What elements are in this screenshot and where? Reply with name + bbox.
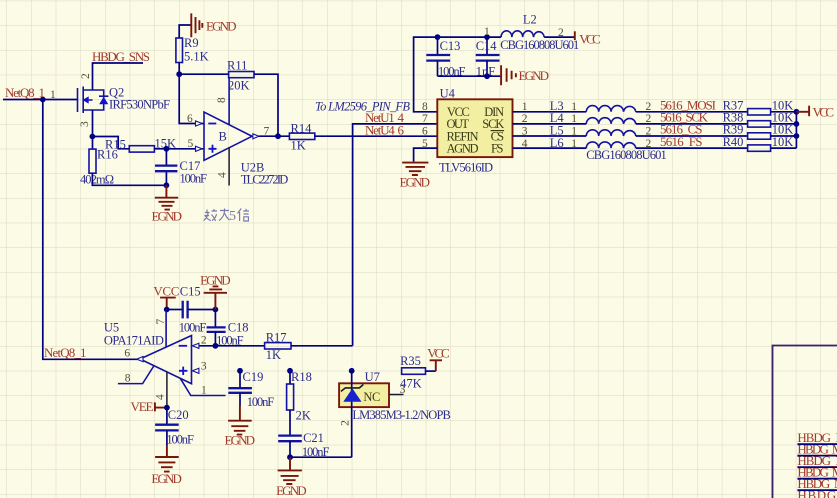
svg-text:100nF: 100nF: [179, 321, 207, 335]
svg-text:L2: L2: [523, 13, 537, 27]
wire node down to C18: [214, 310, 216, 328]
resistor R11: [229, 72, 254, 78]
node C17 top junction: [164, 146, 170, 152]
svg-text:OPA171AID: OPA171AID: [104, 333, 164, 347]
node U7 junction: [349, 368, 355, 374]
svg-text:C14: C14: [476, 39, 498, 53]
node VCC junction U5: [164, 307, 170, 313]
node U5 pin2 junction: [213, 343, 219, 349]
capacitor C13: [426, 37, 450, 76]
ground EGND below U4 pin5: [402, 163, 428, 175]
svg-text:1: 1: [571, 113, 577, 125]
op-amp U5: [118, 310, 226, 408]
wire NetQ8_1 down to U5: [43, 100, 140, 360]
svg-text:3: 3: [201, 361, 207, 373]
svg-text:R17: R17: [266, 331, 287, 345]
wire L5 to R39: [636, 135, 748, 137]
wire R9 top to ground: [179, 25, 191, 38]
wire HBDG_SNS: [93, 63, 144, 90]
node R37 junction: [794, 109, 800, 115]
IC U7 body: [339, 383, 389, 407]
wire L4 to R38: [636, 123, 748, 125]
resistor R9: [176, 38, 183, 63]
wire L6 to R40: [636, 147, 748, 149]
svg-text:AGND: AGND: [447, 142, 479, 156]
IC U4 body: [437, 99, 512, 157]
svg-text:8: 8: [125, 372, 131, 384]
wire C15 to EGND node: [188, 309, 216, 311]
inductor L6: [586, 142, 636, 148]
svg-text:U7: U7: [365, 370, 380, 384]
resistor R15: [129, 146, 154, 152]
wire C13 to C14 bottom: [438, 75, 502, 77]
svg-text:C20: C20: [168, 408, 189, 422]
svg-text:2K: 2K: [296, 409, 311, 423]
node Q2 source junction: [90, 134, 96, 140]
svg-text:VCC: VCC: [153, 284, 179, 299]
svg-text:C19: C19: [243, 370, 264, 384]
svg-text:CBG160808U601: CBG160808U601: [500, 38, 579, 52]
pin arrow U2B pin5: [196, 146, 203, 151]
node R9/R11 junction: [176, 71, 182, 77]
svg-text:4: 4: [217, 172, 229, 178]
resistor R35: [402, 368, 426, 375]
svg-text:4: 4: [522, 138, 528, 150]
pin 3 of U7 stub: [389, 394, 404, 396]
wire U4 pin2: [513, 123, 587, 125]
wire to VCC right: [796, 111, 809, 113]
sheet entry HBDG_N wire 5: [797, 489, 837, 491]
inductor L4: [586, 118, 636, 124]
pin arrow U5 pin2: [192, 343, 199, 348]
svg-text:1K: 1K: [291, 139, 306, 153]
svg-text:3: 3: [79, 121, 91, 127]
resistor R14: [289, 133, 314, 139]
svg-text:LM385M3-1.2/NOPB: LM385M3-1.2/NOPB: [352, 408, 451, 422]
capacitor C14: [476, 37, 500, 76]
node EGND junction above U5: [213, 307, 219, 313]
diode inside U7: [341, 385, 364, 402]
svg-text:4: 4: [155, 394, 167, 400]
resistor R18: [287, 384, 294, 410]
power port VCC right: [808, 106, 810, 117]
ground EGND above R9 (rotated): [191, 13, 202, 37]
op-amp U2B: [204, 78, 252, 186]
capacitor C19: [228, 371, 252, 421]
ground EGND below C20: [155, 457, 179, 472]
wire U4 pin5 to ground: [414, 148, 438, 162]
node NetQ8_1 junction: [40, 97, 46, 103]
svg-text:3: 3: [522, 125, 528, 137]
sheet symbol border: [773, 346, 837, 498]
power port VCC at R35: [430, 360, 442, 371]
node R38 junction: [794, 121, 800, 127]
power port VCC for U5: [160, 298, 176, 310]
sheet entry HBDG_E wire 3: [797, 466, 837, 468]
wire C18 to pin2 wire: [214, 332, 216, 346]
ground EGND below C17: [155, 185, 178, 209]
svg-text:NetQ8_1: NetQ8_1: [5, 85, 45, 100]
resistor R17: [265, 343, 291, 349]
transistor Q2: [78, 87, 109, 114]
svg-text:EGND: EGND: [225, 433, 256, 448]
svg-text:1: 1: [571, 101, 577, 113]
svg-text:NetQ8_1: NetQ8_1: [44, 345, 87, 360]
svg-text:6: 6: [422, 125, 428, 137]
svg-text:VEE: VEE: [131, 399, 154, 414]
wire R18 top: [289, 371, 291, 384]
svg-text:6: 6: [187, 113, 193, 125]
capacitor C21: [278, 410, 302, 457]
node R39 junction: [794, 133, 800, 139]
wire U4 pin8 to decoupling rail: [414, 37, 502, 112]
inductor L5: [586, 130, 636, 136]
pin arrow U5 pin6 output: [137, 357, 143, 362]
sheet entry HBDG_E wire 1: [797, 443, 837, 445]
inductor L2: [501, 31, 544, 37]
svg-text:EGND: EGND: [152, 209, 183, 224]
capacitor C18: [207, 327, 226, 332]
svg-text:2: 2: [522, 113, 528, 125]
wire C21 to U7 pin2: [290, 456, 352, 458]
capacitor C17: [155, 149, 177, 186]
svg-text:TLV5616ID: TLV5616ID: [439, 161, 493, 175]
svg-text:6: 6: [124, 348, 130, 360]
wire R14 to U4 REFIN: [315, 135, 438, 137]
svg-text:EGND: EGND: [276, 483, 307, 498]
svg-text:100nF: 100nF: [166, 433, 194, 447]
capacitor C15: [183, 301, 188, 319]
svg-text:1: 1: [571, 138, 577, 150]
svg-text:U4: U4: [440, 87, 456, 101]
svg-text:8: 8: [216, 97, 228, 103]
svg-text:7: 7: [155, 319, 167, 325]
node C21 bottom junction: [287, 454, 293, 460]
svg-text:R14: R14: [291, 122, 313, 136]
resistor R39: [748, 133, 771, 139]
inductor L3: [586, 106, 636, 112]
wire VCC to C15: [167, 309, 183, 311]
pin arrow U2B pin6: [196, 121, 203, 126]
svg-text:2: 2: [201, 335, 207, 347]
wire to R15: [92, 137, 129, 149]
svg-text:EGND: EGND: [519, 68, 550, 83]
svg-text:7: 7: [422, 113, 428, 125]
pin name CS with overline: [491, 129, 505, 143]
svg-text:R9: R9: [184, 36, 199, 50]
wire U5 pin2 to R17: [199, 345, 265, 347]
svg-text:1: 1: [201, 385, 207, 397]
svg-text:5: 5: [229, 209, 236, 224]
svg-text:100nF: 100nF: [247, 395, 275, 409]
wire feedback NetU1_4 to U4 pin7: [353, 124, 438, 346]
svg-text:VCC: VCC: [427, 346, 450, 361]
ground EGND below C21: [278, 457, 302, 484]
svg-text:2: 2: [340, 420, 352, 426]
wire R11 to output node: [254, 74, 278, 136]
svg-text:EGND: EGND: [206, 18, 237, 33]
wire L3 to R37: [636, 111, 748, 113]
svg-text:B: B: [219, 130, 227, 144]
svg-text:10K: 10K: [772, 135, 794, 149]
svg-text:EGND: EGND: [151, 471, 182, 486]
svg-text:2: 2: [80, 73, 92, 79]
svg-text:20K: 20K: [228, 79, 250, 93]
node C14 top: [484, 34, 490, 40]
resistor R37: [748, 109, 771, 115]
svg-text:C15: C15: [180, 285, 201, 299]
svg-text:100nF: 100nF: [180, 172, 208, 186]
sheet entry HBDG_M wire 4: [797, 478, 837, 480]
svg-text:5: 5: [188, 138, 194, 150]
svg-text:R40: R40: [723, 135, 744, 149]
svg-text:R15: R15: [105, 138, 126, 152]
svg-text:L6: L6: [550, 136, 564, 150]
wire R17 to feedback: [291, 345, 353, 347]
svg-text:C13: C13: [440, 39, 461, 53]
wire R37-R40 common: [771, 112, 797, 148]
svg-text:EGND: EGND: [400, 175, 431, 190]
ground EGND right of C14 (rotated): [501, 65, 516, 85]
svg-text:47K: 47K: [400, 377, 422, 391]
wire U2B output to R14: [259, 135, 290, 137]
sheet entry HBDG_M wire 2: [797, 455, 837, 457]
svg-text:R11: R11: [227, 59, 247, 73]
wire U4 pin1: [513, 111, 587, 113]
svg-text:VCC: VCC: [813, 105, 835, 120]
wire U4 pin4: [513, 147, 587, 149]
wire junction to R11: [179, 73, 228, 75]
svg-text:NC: NC: [363, 390, 380, 404]
svg-text:HBDG_: HBDG_: [797, 487, 837, 498]
wire R9 bottom: [178, 63, 180, 75]
svg-text:CBG160808U601: CBG160808U601: [586, 148, 667, 162]
svg-text:C21: C21: [303, 431, 324, 445]
svg-text:8: 8: [422, 101, 428, 113]
node R18 junction: [287, 368, 293, 374]
node C13 top: [435, 34, 441, 40]
node U5 pin4 junction: [164, 405, 170, 411]
svg-text:1: 1: [522, 101, 528, 113]
svg-text:EGND: EGND: [200, 273, 231, 288]
svg-text:1: 1: [50, 89, 56, 101]
svg-text:1: 1: [484, 26, 490, 38]
svg-text:1K: 1K: [266, 348, 281, 362]
wire U4 pin3: [513, 135, 587, 137]
wire R16 bottom to EGND: [92, 173, 166, 185]
svg-text:5.1K: 5.1K: [184, 50, 209, 64]
node output junction: [275, 133, 281, 139]
svg-text:R18: R18: [291, 370, 312, 384]
svg-text:IRF530NPbF: IRF530NPbF: [109, 98, 170, 112]
power port VCC top: [574, 31, 576, 40]
wire R35 to VCC: [426, 370, 436, 372]
wire Q2 source down: [92, 110, 94, 149]
svg-text:HBDG_SNS: HBDG_SNS: [92, 49, 150, 64]
svg-text:TLC2272ID: TLC2272ID: [241, 173, 289, 187]
node C17 bottom junction: [164, 182, 170, 188]
wire L2 to VCC: [544, 36, 574, 38]
svg-text:5616_FS: 5616_FS: [660, 134, 703, 149]
wire R15 to U2B pin5: [154, 148, 204, 150]
ground EGND above U5 (flipped): [204, 286, 227, 309]
capacitor C20: [155, 408, 179, 457]
pin arrow U2B pin7 output: [253, 134, 259, 139]
resistor R16: [89, 149, 96, 173]
node C19 junction: [237, 368, 243, 374]
node C14 bottom: [484, 73, 490, 79]
svg-text:R35: R35: [400, 354, 421, 368]
resistor R38: [748, 121, 771, 127]
svg-text:1: 1: [571, 125, 577, 137]
svg-text:402mΩ: 402mΩ: [80, 173, 114, 187]
ground EGND below C19: [228, 421, 252, 435]
pin arrow U5 pin3: [192, 368, 199, 373]
power port VEE: [155, 402, 167, 411]
wire U7 pin anode/cathode vertical: [351, 371, 353, 457]
annotation amplify 5x: [204, 209, 230, 222]
svg-text:FS: FS: [491, 142, 504, 156]
svg-text:VCC: VCC: [579, 32, 601, 47]
wire NetQ8_1 to Q2 gate: [3, 99, 78, 101]
resistor R40: [748, 145, 771, 151]
wire junction down to U2B pin6: [179, 74, 204, 123]
